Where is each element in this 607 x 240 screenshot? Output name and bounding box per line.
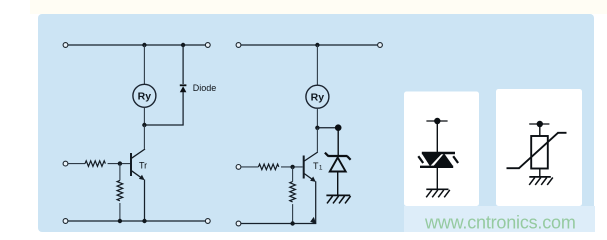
terminal input circuit 1 bbox=[63, 161, 68, 166]
wire: zener to ground bbox=[337, 172, 339, 194]
relay coil Ry circuit 1 bbox=[133, 84, 156, 107]
wire: collector vertical bbox=[143, 125, 145, 149]
svg-text:Ry: Ry bbox=[138, 91, 152, 103]
wire: zener branch upper bbox=[337, 128, 339, 156]
junction dot top rail circuit 2 bbox=[315, 43, 319, 47]
wire: base node down circuit 2 bbox=[292, 167, 294, 182]
resistor R1 (base series) bbox=[85, 161, 105, 167]
wire: input to resistor bbox=[68, 163, 85, 165]
junction dot base node circuit 2 bbox=[290, 165, 294, 169]
transistor T1 circuit 2 bbox=[304, 152, 318, 182]
watermark band bbox=[404, 206, 595, 232]
junction dot top rail at diode branch bbox=[181, 43, 185, 47]
svg-text:www.cntronics.com: www.cntronics.com bbox=[424, 213, 576, 233]
junction dot bottom rail at emitter bbox=[142, 219, 146, 223]
wire: diode branch lower to collector node bbox=[146, 92, 183, 125]
wire: relay branch lower circuit 2 bbox=[316, 108, 318, 128]
terminal crossbar box 2 bbox=[529, 123, 549, 125]
top margin tint bbox=[30, 0, 607, 14]
ground circuit 2 bbox=[326, 195, 350, 203]
wire: box 1 vertical lower bbox=[436, 166, 438, 188]
junction dot top rail at relay branch bbox=[142, 43, 146, 47]
resistor R4 (base-emitter) bbox=[290, 182, 296, 202]
terminal bottom-left circuit 2 bbox=[236, 221, 241, 226]
junction dot collector node bbox=[142, 123, 146, 127]
terminal top-right circuit 1 bbox=[205, 43, 210, 48]
wire: collector vertical circuit 2 bbox=[316, 128, 318, 152]
junction dot bottom rail circuit 2 bbox=[290, 221, 294, 225]
terminal bottom-left circuit 1 bbox=[63, 219, 68, 224]
svg-text:Ry: Ry bbox=[311, 92, 325, 104]
resistor R2 (base-emitter) bbox=[117, 180, 123, 200]
wire: relay branch lower bbox=[143, 107, 145, 125]
resistor R3 (base series) bbox=[258, 164, 278, 170]
junction dot collector node circuit 2 bbox=[315, 126, 319, 130]
terminal top-right circuit 2 bbox=[378, 43, 383, 48]
relay coil Ry circuit 2 bbox=[306, 85, 329, 108]
wire: top rail circuit 1 bbox=[68, 44, 206, 46]
TVS bidirectional zener bbox=[418, 153, 458, 167]
zener diode ZD bbox=[325, 153, 351, 172]
ground box 2 bbox=[529, 177, 553, 185]
wire: collector node to zener bbox=[317, 127, 338, 129]
wire: resistor R2 to bottom rail bbox=[119, 203, 121, 221]
emitter arrow at rail corner bbox=[310, 217, 316, 224]
wire: base node down bbox=[119, 164, 121, 181]
junction dot bottom rail at R2 bbox=[118, 219, 122, 223]
wire: box 1 vertical upper bbox=[436, 121, 438, 154]
terminal bottom-right circuit 1 bbox=[205, 219, 210, 224]
ground box 1 bbox=[426, 189, 450, 197]
wire: relay branch upper bbox=[143, 45, 145, 84]
svg-text:Tr: Tr bbox=[139, 160, 147, 170]
white symbol box 1 bbox=[404, 92, 479, 207]
node dot box 1 bbox=[434, 118, 440, 124]
node dot zener top bbox=[335, 124, 342, 131]
wire: emitter vertical circuit 2 bbox=[315, 181, 317, 223]
wire: diode branch upper bbox=[182, 45, 184, 84]
wire: bottom rail circuit 1 bbox=[68, 220, 206, 222]
wire: bottom rail circuit 2 bbox=[241, 223, 316, 225]
node dot box 2 bbox=[537, 121, 543, 127]
terminal crossbar box 1 bbox=[426, 120, 447, 122]
wire: resistor to base circuit 2 bbox=[281, 166, 303, 168]
wire: box 2 vertical lower bbox=[539, 169, 541, 177]
white symbol box 2 bbox=[496, 89, 582, 206]
wire: box 2 vertical upper bbox=[539, 124, 541, 136]
terminal input circuit 2 bbox=[236, 165, 241, 170]
transistor Tr circuit 1 bbox=[131, 149, 145, 180]
varistor RV bbox=[507, 133, 567, 169]
svg-text:Diode: Diode bbox=[193, 83, 217, 93]
wire: emitter vertical circuit 1 bbox=[144, 180, 146, 222]
wire: top rail circuit 2 bbox=[241, 44, 378, 46]
svg-text:1: 1 bbox=[319, 165, 323, 172]
wire: resistor to base bbox=[108, 163, 130, 165]
terminal top-left circuit 2 bbox=[236, 43, 241, 48]
wire: input to resistor circuit 2 bbox=[241, 166, 259, 168]
wire: resistor R4 to bottom rail bbox=[292, 204, 294, 223]
diode D1 bbox=[180, 84, 187, 92]
terminal top-left circuit 1 bbox=[63, 43, 68, 48]
wire: relay branch upper circuit 2 bbox=[316, 45, 318, 85]
junction dot base node circuit 1 bbox=[118, 161, 122, 165]
